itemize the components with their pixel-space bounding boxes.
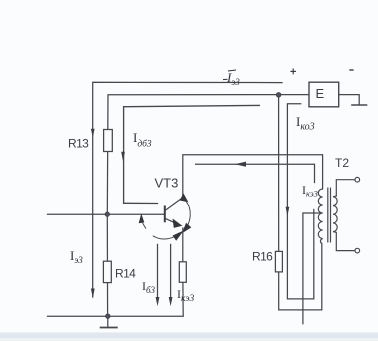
source E box: [309, 82, 339, 107]
wire inner bracket with arrow: [196, 164, 315, 182]
svg-text:R16: R16: [252, 250, 273, 264]
chassis bar: [352, 104, 367, 106]
resistor R13: [104, 130, 113, 152]
junction node at E plus: [276, 93, 281, 98]
junction node base rail: [105, 212, 109, 216]
arrowhead current line A: [156, 297, 160, 306]
arrowhead on E tap drop: [286, 207, 290, 216]
arrowhead on Iэ3 line upper: [91, 129, 95, 138]
emitter line: [165, 218, 176, 223]
wire transformer center tap: [303, 213, 320, 324]
collector arrowhead: [181, 194, 188, 201]
base current small arrow: [139, 215, 144, 223]
label current Iэ3 overline top: [223, 70, 240, 87]
secondary top lead: [333, 180, 355, 197]
emitter arrowhead: [173, 220, 181, 228]
wire rail3 horizontal: [124, 105, 260, 203]
svg-text:R14: R14: [115, 267, 136, 281]
current arrow line A (Iб3): [157, 244, 159, 298]
resistor R16: [275, 251, 282, 272]
svg-text:T2: T2: [335, 156, 349, 170]
terminal bottom: [355, 248, 360, 253]
collector line: [165, 198, 183, 211]
wire E box right to chassis: [339, 95, 360, 105]
terminal top: [355, 177, 360, 182]
base arrow tail: [143, 223, 146, 229]
svg-text:E: E: [316, 86, 325, 101]
arrowhead current line B: [169, 297, 173, 306]
transistor VT3: [139, 194, 190, 316]
arc arrowhead lower (up-right): [173, 232, 182, 240]
emitter vertical wire: [182, 227, 184, 261]
svg-text:VT3: VT3: [155, 176, 179, 191]
ground bar: [101, 327, 117, 329]
current arrow line B: [170, 244, 172, 298]
ground stub: [107, 316, 109, 327]
wire E tap drop: [287, 104, 313, 299]
minus sign: [349, 69, 353, 71]
resistor R14: [103, 261, 111, 282]
transformer T2: [318, 177, 359, 253]
core line 1: [327, 188, 329, 243]
arc arrowhead upper (down-left): [183, 224, 191, 233]
secondary winding: [333, 197, 337, 232]
arrowhead on inner bracket pointing left: [235, 162, 246, 167]
primary winding upper section: [318, 189, 322, 213]
scan band bottom: [0, 333, 378, 339]
junction node bottom rail: [106, 314, 110, 318]
core line 2: [330, 188, 332, 243]
base bar: [164, 206, 166, 223]
wire base rail: [48, 213, 165, 215]
wire rail2 to E box: [107, 95, 309, 215]
envelope arc right: [188, 207, 190, 225]
envelope arc bottom: [153, 236, 175, 239]
svg-text:R13: R13: [68, 137, 89, 151]
primary winding lower section: [318, 213, 322, 244]
resistor on emitter leg: [179, 262, 186, 283]
arrowhead on rail3 drop: [121, 152, 125, 161]
collector arc tail: [186, 201, 190, 207]
secondary bottom lead: [333, 232, 355, 251]
wire R16 branch / outer U: [279, 95, 322, 310]
emitter wire below resistor to bottom rail: [182, 282, 184, 316]
wire Iэ3 loop: top rail 1: [93, 82, 282, 297]
wire bottom rail: [48, 315, 184, 317]
arrowhead on Iэ3 line bottom: [91, 289, 95, 299]
plus sign: [290, 69, 296, 75]
wire R14 branch: [106, 214, 108, 316]
wire collector bracket to transformer primary top: [183, 155, 323, 198]
